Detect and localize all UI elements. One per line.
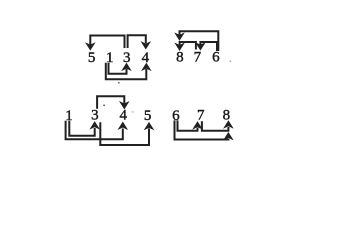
wire 3 to 4 (group A top-right bracket) <box>128 35 146 48</box>
svg-text:7: 7 <box>197 108 205 124</box>
speck dot right of node 6 (group B) <box>230 60 232 62</box>
arrowhead up at node 5 (group C) <box>145 123 154 130</box>
speck dot near group C top bracket <box>103 104 105 106</box>
wire 1 to 3 (group A bottom inner bracket) <box>109 63 127 74</box>
arrowhead up at node 4 (group A) <box>142 63 151 70</box>
arrowhead up at node 4 (group C) <box>118 122 127 129</box>
svg-text:5: 5 <box>88 50 96 66</box>
wire 1 to 3 (group C inner bracket) <box>69 121 94 136</box>
arrowhead down at node 4 (group A) <box>141 42 150 49</box>
wire 7 to 8 (group B lower-left bracket) <box>180 42 196 50</box>
arrowhead down at node 7 (group B) <box>196 43 205 50</box>
wire 3 to 5 (group C lowest bracket) <box>100 122 149 145</box>
arrowhead down at node 5 (group A) <box>86 43 95 50</box>
svg-text:3: 3 <box>91 108 99 124</box>
svg-text:1: 1 <box>65 108 73 124</box>
arrowhead down lower at node 8 (group B) <box>175 43 184 50</box>
speck dash between node 4 and 5 (group C) <box>132 111 134 112</box>
svg-text:6: 6 <box>212 49 220 65</box>
svg-text:7: 7 <box>194 49 202 65</box>
arrowhead up upper at node 8 (group D) <box>224 121 233 128</box>
wire 1 to 4 (group C middle bracket) <box>66 121 123 140</box>
arrowhead down at node 4 (group C) <box>120 102 129 109</box>
svg-text:1: 1 <box>106 50 114 66</box>
arrowhead up at node 7 (group D) <box>193 122 202 129</box>
svg-text:6: 6 <box>172 108 180 124</box>
wire 6 to 7 (group D inner bracket) <box>178 120 198 130</box>
arrowhead down upper at node 8 (group B) <box>175 33 184 40</box>
wire 3 to 5 (group A top-left bracket) <box>90 36 124 49</box>
wire 6 to 8 (group D lowest bracket) <box>175 120 229 139</box>
wire 1 to 4 (group A bottom outer bracket) <box>106 63 147 80</box>
speck dot below group A outer bracket <box>118 82 120 84</box>
svg-text:3: 3 <box>123 50 131 66</box>
wire 3 to 4 (group C top bracket) <box>97 96 124 108</box>
svg-text:8: 8 <box>176 49 184 65</box>
arrowhead up lower at node 8 (group D) <box>224 133 233 140</box>
svg-text:8: 8 <box>223 108 231 124</box>
wire 7 to 8 (group D upper bracket) <box>202 121 229 131</box>
svg-text:5: 5 <box>144 108 152 124</box>
svg-text:4: 4 <box>142 50 150 66</box>
wire 6 to 8 (group B top bracket) <box>180 31 219 51</box>
wire 6 to 7 (group B lower-right bracket) <box>200 42 217 51</box>
arrowhead up at node 3 (group C) <box>90 122 99 129</box>
svg-text:4: 4 <box>119 107 127 123</box>
arrowhead up at node 3 (group A) <box>122 63 131 70</box>
